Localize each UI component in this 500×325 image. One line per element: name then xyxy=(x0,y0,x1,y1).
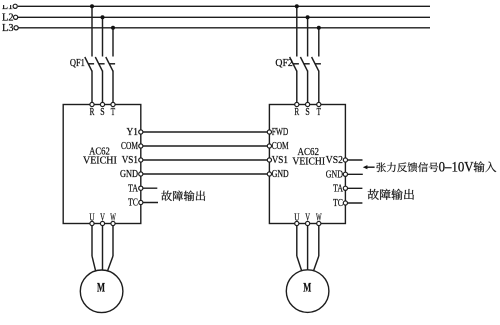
svg-text:VS1: VS1 xyxy=(122,154,138,166)
svg-text:M: M xyxy=(303,281,311,295)
svg-text:QF1: QF1 xyxy=(70,57,85,69)
svg-text:0–10V: 0–10V xyxy=(439,159,474,175)
svg-text:TA: TA xyxy=(333,183,343,195)
svg-text:S: S xyxy=(305,106,309,118)
svg-text:R: R xyxy=(294,106,299,118)
svg-text:GND: GND xyxy=(120,168,138,180)
svg-text:V: V xyxy=(100,211,105,223)
svg-text:QF2: QF2 xyxy=(275,57,292,69)
svg-text:M: M xyxy=(97,281,105,295)
svg-text:GND: GND xyxy=(272,168,289,180)
svg-text:VS2: VS2 xyxy=(326,154,343,166)
svg-text:T: T xyxy=(317,106,322,118)
svg-text:TA: TA xyxy=(128,182,138,194)
svg-text:W: W xyxy=(316,211,322,223)
svg-text:VEICHI: VEICHI xyxy=(292,155,325,167)
svg-text:U: U xyxy=(294,211,299,223)
svg-text:T: T xyxy=(111,106,116,118)
svg-text:TC: TC xyxy=(128,197,138,209)
svg-text:TC: TC xyxy=(333,197,343,209)
svg-text:S: S xyxy=(100,106,104,118)
svg-text:R: R xyxy=(90,106,95,118)
svg-text:COM: COM xyxy=(272,140,289,152)
svg-text:GND: GND xyxy=(326,169,343,181)
svg-text:Y1: Y1 xyxy=(127,126,139,138)
svg-text:W: W xyxy=(110,211,116,223)
svg-text:VS1: VS1 xyxy=(272,154,288,166)
svg-text:VEICHI: VEICHI xyxy=(83,154,117,166)
svg-text:V: V xyxy=(305,211,310,223)
svg-text:L3: L3 xyxy=(2,22,14,34)
svg-text:COM: COM xyxy=(121,140,138,152)
svg-text:FWD: FWD xyxy=(272,126,289,138)
svg-text:U: U xyxy=(89,211,94,223)
